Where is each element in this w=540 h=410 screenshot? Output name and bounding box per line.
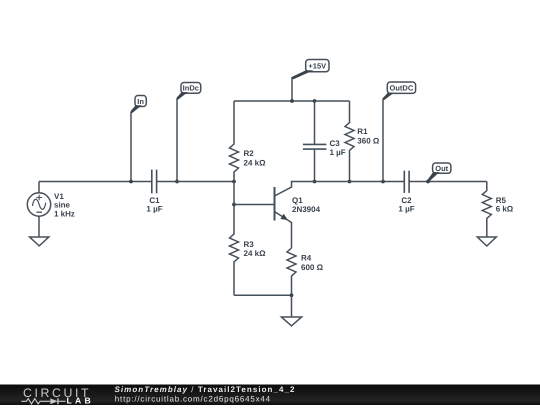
- node emitter ground junction: [290, 293, 294, 297]
- node OutDC junction: [381, 180, 385, 184]
- label R4 value: [301, 253, 324, 271]
- wire V1 to C1: [39, 181, 151, 183]
- resistor R4: [287, 248, 296, 295]
- wire V1 bottom stub: [38, 216, 40, 237]
- wire V1 top stub: [38, 182, 40, 193]
- wire +15V to rail: [291, 78, 293, 102]
- capacitor C1: [152, 170, 157, 194]
- resistor R1: [345, 101, 354, 182]
- transistor Q1: [275, 182, 315, 249]
- label R1 value: [357, 127, 380, 146]
- wire C1 to divider node: [157, 181, 234, 183]
- node R1 bottom junction: [348, 180, 352, 184]
- label C3 value: [330, 139, 346, 157]
- svg-text:SimonTremblay / Travail2Tensio: SimonTremblay / Travail2Tension_4_2: [115, 385, 296, 394]
- wire R3 bottom to R4 bottom: [234, 294, 292, 296]
- resistor R3: [230, 205, 239, 296]
- node +15V junction: [290, 99, 294, 103]
- wire OutDC flag: [382, 99, 384, 182]
- label C2 value: [398, 196, 414, 214]
- node base junction: [232, 203, 236, 207]
- label R3 value: [244, 240, 267, 258]
- label C1 value: [146, 196, 162, 214]
- node C3 top junction: [313, 99, 317, 103]
- node InDc junction: [175, 180, 179, 184]
- node divider junction: [232, 180, 236, 184]
- wire base: [234, 204, 275, 206]
- capacitor C2: [404, 171, 409, 193]
- svg-text:LAB: LAB: [67, 396, 95, 405]
- label Q1 value: [292, 196, 321, 214]
- node Out junction: [426, 180, 430, 184]
- capacitor C3: [303, 101, 327, 182]
- voltage source V1: [27, 193, 50, 216]
- wire divider node to base node: [233, 182, 235, 205]
- node In junction: [129, 180, 133, 184]
- resistor R5: [482, 182, 491, 238]
- node C3 bottom junction: [313, 180, 317, 184]
- resistor R2: [230, 101, 239, 182]
- wire collector row: [315, 181, 405, 183]
- ground GND1: [30, 237, 49, 246]
- wire InDc flag: [176, 99, 178, 182]
- wire top rail: [234, 100, 350, 102]
- ground GND2: [281, 295, 301, 326]
- net flag OutDC: [382, 82, 415, 100]
- net flag In: [130, 96, 146, 114]
- net flag Out: [427, 163, 451, 182]
- CircuitLab logo circuit doodle: [22, 398, 66, 404]
- label R5 value: [496, 196, 514, 213]
- wire C2 to R5: [410, 181, 487, 183]
- ground GND3: [477, 237, 496, 246]
- svg-text:http://circuitlab.com/c2d6pq66: http://circuitlab.com/c2d6pq6645x44: [115, 395, 271, 404]
- net flag InDc: [176, 83, 200, 100]
- label V1 value: [54, 192, 75, 219]
- wire In flag: [130, 112, 132, 182]
- power flag +15V: [291, 60, 329, 80]
- label R2 value: [244, 149, 267, 168]
